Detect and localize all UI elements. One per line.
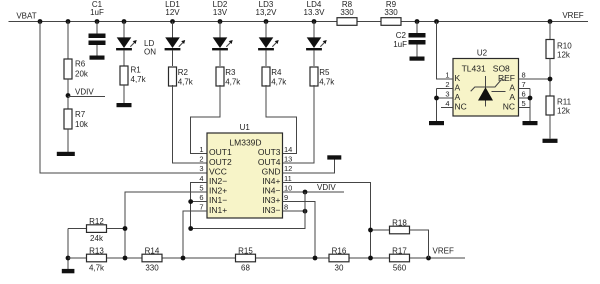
svg-text:10: 10	[284, 183, 292, 192]
svg-text:30: 30	[335, 263, 344, 272]
svg-text:R10: R10	[557, 42, 572, 51]
resistor R15	[236, 246, 256, 272]
wire U1 pin 5 IN2+ to R12/R13 tap	[125, 192, 207, 258]
svg-text:330: 330	[340, 8, 354, 17]
svg-text:13V: 13V	[213, 8, 228, 17]
svg-text:330: 330	[384, 8, 398, 17]
svg-text:4,7k: 4,7k	[178, 78, 194, 87]
U1 pin 8 IN3-	[262, 203, 288, 215]
svg-text:4,7k: 4,7k	[131, 75, 147, 84]
U1 pin 6 IN1-	[199, 193, 227, 205]
wire R12 left down	[67, 229, 69, 270]
resistor R16	[329, 246, 349, 272]
wire U2 anode right to ground	[528, 89, 533, 122]
U1 pin 1 OUT1	[199, 145, 232, 157]
resistor R17	[390, 246, 410, 272]
node VDIV (left)	[66, 88, 105, 98]
svg-text:11: 11	[284, 174, 292, 183]
svg-text:13: 13	[284, 155, 292, 164]
svg-text:2: 2	[445, 80, 449, 89]
LED LD4 13.3V	[304, 0, 327, 50]
svg-text:U1: U1	[240, 123, 251, 132]
node R13/R14 junction	[123, 256, 128, 261]
wire R4 to U1 OUT3 pin 14	[266, 85, 296, 154]
svg-text:13,2V: 13,2V	[256, 8, 278, 17]
node ladder left junction	[66, 256, 71, 261]
svg-text:7: 7	[522, 80, 526, 89]
svg-text:4: 4	[445, 99, 449, 108]
U2 pin 3 A	[437, 90, 461, 103]
U2 TL431 symbol	[471, 76, 506, 107]
wire VDIV vertical right	[191, 192, 305, 229]
svg-text:12V: 12V	[165, 8, 180, 17]
ground (ladder left)	[62, 269, 75, 273]
svg-text:K: K	[455, 73, 461, 83]
resistor R11	[546, 96, 572, 116]
ground (U2 right)	[523, 121, 538, 125]
LED LD3 13,2V	[256, 0, 279, 50]
svg-text:IN2−: IN2−	[209, 176, 227, 186]
svg-text:3: 3	[445, 90, 449, 99]
resistor R14	[142, 246, 162, 272]
svg-text:VREF: VREF	[562, 11, 583, 20]
node junction LD-ON column	[122, 19, 127, 24]
node junction LD2 column	[218, 19, 223, 24]
U1 pin 11 IN4+	[262, 174, 292, 186]
wire top VBAT/VREF rail	[9, 21, 589, 23]
wire LED to R1	[123, 50, 125, 66]
wire LD3 to R4	[265, 50, 267, 66]
svg-text:ON: ON	[144, 47, 156, 56]
node junction R6 column	[66, 19, 71, 24]
U1 pin 5 IN2+	[199, 183, 227, 195]
node R16/R17 junction	[368, 256, 373, 261]
ground (C2)	[410, 57, 425, 61]
svg-text:U2: U2	[477, 49, 488, 58]
svg-text:VCC: VCC	[209, 166, 227, 176]
svg-text:IN2+: IN2+	[209, 186, 227, 196]
ground (R11)	[543, 139, 558, 143]
node junction LD1 column	[170, 19, 175, 24]
svg-text:OUT2: OUT2	[209, 157, 232, 167]
svg-text:VDIV: VDIV	[75, 88, 94, 97]
node junction U2 K column	[434, 19, 439, 24]
resistor R13	[87, 246, 107, 272]
ground (U1 GND)	[327, 155, 341, 159]
wire bottom ladder rail	[68, 257, 465, 259]
svg-text:13.3V: 13.3V	[304, 8, 326, 17]
wire R2 to U1 OUT2 pin 2	[173, 85, 208, 163]
svg-text:9: 9	[284, 193, 288, 202]
U1 pin 13 OUT4	[258, 155, 293, 167]
wire R3 to U1 OUT1 pin 1	[191, 85, 220, 154]
svg-text:6: 6	[199, 193, 203, 202]
svg-text:R2: R2	[178, 68, 189, 77]
node R18 left junction	[368, 228, 373, 233]
svg-text:12: 12	[284, 164, 292, 173]
wire R6 top	[67, 22, 69, 60]
wire C1 bottom	[96, 45, 98, 56]
wire LD2 to R3	[219, 50, 221, 66]
svg-text:IN3+: IN3+	[262, 195, 280, 205]
resistor R7	[64, 109, 89, 129]
svg-text:68: 68	[241, 263, 250, 272]
svg-text:VDIV: VDIV	[317, 183, 336, 192]
capacitor C1 1uF	[89, 0, 106, 45]
svg-text:4: 4	[199, 174, 203, 183]
svg-text:R3: R3	[225, 68, 236, 77]
svg-text:A: A	[455, 83, 461, 93]
svg-text:R4: R4	[271, 68, 282, 77]
U2 pin 4 NC	[441, 99, 467, 112]
svg-text:330: 330	[145, 263, 159, 272]
svg-text:GND: GND	[262, 166, 281, 176]
U1 pin 14 OUT3	[258, 145, 293, 157]
node VBAT	[16, 12, 42, 24]
svg-text:12k: 12k	[557, 51, 571, 60]
resistor R18	[371, 218, 429, 258]
wire U1 pin 7 IN1+ to R14/R15 tap	[183, 211, 207, 258]
node R14/R15 junction	[181, 256, 186, 261]
svg-text:8: 8	[522, 71, 526, 80]
svg-text:R5: R5	[319, 68, 330, 77]
svg-text:R11: R11	[557, 98, 572, 107]
wire C1 top	[96, 22, 98, 34]
wire U1 pin 9 IN3+ down to ladder	[283, 202, 316, 258]
svg-text:IN3−: IN3−	[262, 205, 280, 215]
node junction C2 column	[415, 19, 420, 24]
svg-text:1uF: 1uF	[90, 8, 104, 17]
node junction C1 column	[95, 19, 100, 24]
svg-text:6: 6	[522, 90, 526, 99]
wire VBAT feed to U1 VCC pin 3	[40, 22, 207, 173]
svg-text:R1: R1	[131, 66, 142, 75]
svg-text:10k: 10k	[75, 120, 89, 129]
wire R11 to ground	[549, 115, 551, 139]
svg-text:4,7k: 4,7k	[89, 263, 105, 272]
wire R5 to U1 OUT4 pin 13	[283, 85, 315, 163]
wire R10 to R11	[549, 59, 551, 97]
U1 pin 7 IN1+	[199, 203, 227, 215]
svg-text:A: A	[455, 92, 461, 102]
svg-text:A: A	[509, 83, 515, 93]
svg-text:4,7k: 4,7k	[271, 78, 287, 87]
svg-text:20k: 20k	[75, 70, 89, 79]
svg-text:14: 14	[284, 145, 292, 154]
ground (U2 left)	[429, 121, 444, 125]
svg-text:5: 5	[199, 183, 203, 192]
node VDIV (right)	[303, 183, 337, 195]
svg-text:A: A	[509, 92, 515, 102]
svg-text:IN1−: IN1−	[209, 195, 227, 205]
resistor R8	[337, 0, 357, 25]
node pin6 junction	[188, 199, 207, 204]
wire U1 pin 4 IN2- down	[191, 182, 207, 228]
svg-text:4,7k: 4,7k	[225, 78, 241, 87]
resistor R10	[546, 22, 572, 60]
wire R1 to ground	[123, 85, 125, 103]
svg-text:12k: 12k	[557, 107, 571, 116]
U1 pin 3 VCC	[199, 164, 227, 176]
svg-text:4,7k: 4,7k	[319, 78, 335, 87]
U1 pin 10 IN4-	[262, 183, 292, 195]
node VDIV bridge junction	[188, 226, 193, 231]
svg-text:R6: R6	[75, 60, 86, 69]
capacitor C2 1uF	[393, 31, 425, 49]
wire U1 pin 8 IN3- to VDIV vertical	[283, 209, 308, 214]
svg-text:3: 3	[199, 164, 203, 173]
node VREF (bottom)	[426, 247, 454, 261]
svg-text:C2: C2	[396, 31, 407, 40]
U1 pin 12 GND	[262, 164, 293, 176]
wire R7 to ground	[67, 129, 69, 152]
svg-text:TL431 SO8: TL431 SO8	[462, 64, 510, 74]
resistor R3	[216, 67, 241, 87]
resistor R1	[120, 66, 147, 86]
svg-text:NC: NC	[503, 102, 515, 112]
wire C2 bottom	[416, 45, 418, 57]
resistor R2	[169, 67, 194, 87]
node R15/R16 junction	[313, 256, 318, 261]
wire U1 pin 11 IN4+ down to ladder	[283, 182, 371, 258]
U1 pin 9 IN3+	[262, 193, 288, 205]
U2 pin 8 REF	[498, 71, 550, 84]
U2 pin 7 A	[509, 80, 530, 93]
svg-text:1: 1	[445, 71, 449, 80]
svg-text:1uF: 1uF	[393, 40, 407, 49]
svg-text:R7: R7	[75, 110, 86, 119]
svg-text:IN4+: IN4+	[262, 176, 280, 186]
svg-text:560: 560	[393, 263, 407, 272]
wire U2 anode left to ground	[434, 89, 439, 122]
wire LD1 to R2	[172, 50, 174, 66]
op-amp U1 LM339D body	[207, 123, 283, 218]
wire LED ON top	[123, 22, 125, 38]
resistor R4	[262, 67, 287, 87]
svg-text:8: 8	[284, 203, 288, 212]
svg-text:OUT4: OUT4	[258, 157, 281, 167]
node R12/R13 tap junction	[123, 226, 128, 231]
svg-text:24k: 24k	[90, 234, 104, 243]
ground (R1)	[117, 103, 132, 107]
wire C2 top	[416, 22, 418, 34]
wire U1 GND pin 12 to ground	[283, 160, 335, 173]
U2 pin 2 A	[437, 80, 461, 93]
svg-text:1: 1	[199, 145, 203, 154]
U2 pin 5 NC	[503, 99, 531, 112]
U2 pin 6 A	[509, 90, 530, 103]
node VREF (top right)	[548, 11, 584, 24]
resistor R5	[310, 67, 335, 87]
svg-text:7: 7	[199, 203, 203, 212]
node REF junction	[548, 77, 553, 82]
svg-text:5: 5	[522, 99, 526, 108]
ground (C1)	[90, 56, 105, 60]
svg-text:OUT1: OUT1	[209, 147, 232, 157]
svg-text:OUT3: OUT3	[258, 147, 281, 157]
svg-text:2: 2	[199, 155, 203, 164]
svg-text:IN1+: IN1+	[209, 205, 227, 215]
svg-text:IN4−: IN4−	[262, 186, 280, 196]
svg-text:VREF: VREF	[433, 247, 454, 256]
U2 pin 1 K	[437, 22, 461, 84]
LED LD ON	[116, 37, 156, 56]
U1 pin 4 IN2-	[199, 174, 227, 186]
svg-text:REF: REF	[498, 73, 515, 83]
wire R6 to R7	[67, 79, 69, 109]
resistor R12	[68, 217, 125, 243]
LED LD2 13V	[212, 0, 233, 50]
node junction LD3 column	[264, 19, 269, 24]
LED LD1 12V	[165, 0, 186, 50]
ground (R7)	[57, 152, 75, 156]
svg-text:LM339D: LM339D	[229, 137, 261, 147]
U1 pin 2 OUT2	[199, 155, 232, 167]
wire U1 pin 10 IN4- VDIV stub	[283, 191, 345, 193]
transistor U2 TL431 body	[453, 49, 519, 117]
svg-text:NC: NC	[455, 102, 467, 112]
resistor R6	[64, 59, 89, 79]
node junction LD4 column	[312, 19, 317, 24]
svg-text:VBAT: VBAT	[16, 12, 36, 21]
wire LD4 to R5	[313, 50, 315, 66]
resistor R9	[381, 0, 401, 25]
